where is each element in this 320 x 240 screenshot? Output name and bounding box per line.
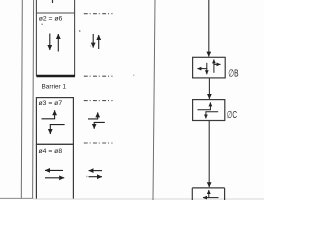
svg-text:ø2 = ø6: ø2 = ø6 [39,15,63,22]
svg-text:∅B: ∅B [228,69,239,80]
svg-text:∅C: ∅C [227,110,237,121]
svg-text:ø3 = ø7: ø3 = ø7 [39,100,63,107]
svg-text:ø4 = ø8: ø4 = ø8 [39,148,63,155]
svg-text:Barrier 1: Barrier 1 [42,84,67,91]
